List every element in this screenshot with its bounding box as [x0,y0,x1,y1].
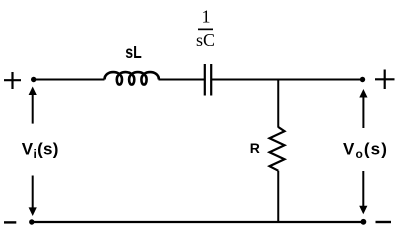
wire: top-right from capacitor to output node [212,79,363,81]
minus sign left (input polarity -) [4,221,16,223]
svg-text:sC: sC [196,30,215,50]
label Vi(s) [22,139,59,161]
svg-text:R: R [250,140,260,156]
svg-text:1: 1 [202,6,211,26]
node: output bottom terminal dot [361,219,367,225]
resistor R zigzag [270,127,285,171]
label R [250,140,260,156]
minus sign right (output polarity -) [376,221,392,223]
node: input bottom terminal dot [29,219,34,224]
svg-text:Vi(s): Vi(s) [22,139,59,161]
wire: top-left from input node to inductor [34,79,105,81]
arrow: output voltage down arrow [359,171,367,214]
node: output top terminal dot [360,77,365,82]
wire: between inductor and capacitor [159,79,205,81]
label Vo(s) [343,139,388,161]
node: input top terminal dot [31,77,36,82]
arrow: input voltage down arrow [29,176,37,217]
label sL (inductor impedance) [125,42,142,62]
wire: resistor top lead (junction to zigzag) [277,80,279,128]
inductor L [105,72,159,85]
label 1/sC (capacitor impedance fraction) [196,6,215,50]
plus sign right (output polarity +) [375,70,395,90]
svg-text:sL: sL [125,42,142,62]
plus sign left (input polarity +) [4,72,21,89]
arrow: input voltage up arrow [29,87,37,124]
wire: resistor bottom lead [277,171,279,222]
arrow: output voltage up arrow [359,89,367,128]
capacitor C [205,64,211,96]
wire: bottom rail [32,221,364,223]
svg-text:Vo(s): Vo(s) [343,139,388,161]
